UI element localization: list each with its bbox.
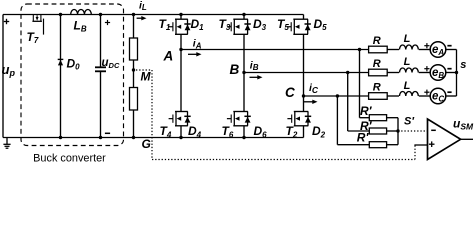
label s [460,59,466,71]
wire divider upper [133,15,135,39]
svg-text:B: B [230,62,240,77]
current iL arrow [137,16,147,20]
label L phase A [404,33,411,45]
resistor R phase A [369,46,388,53]
diode D0 [58,15,64,138]
label M [141,70,152,84]
svg-text:A: A [163,49,174,64]
wire L to source phase C [419,95,431,97]
wire divider middle [133,60,135,88]
label D2 [312,124,326,139]
label T3 [219,17,231,32]
buck converter dashed boundary box [21,4,124,146]
wire S' rail [397,118,399,145]
label B [230,62,240,77]
label R phase B [373,58,381,70]
ground [3,138,10,149]
wire T3 to node B [243,34,245,72]
node junction D0 top [59,13,62,16]
label C [285,85,295,100]
wire divider lower [133,110,135,138]
node tap phase B [346,71,349,74]
label R' phase B [360,119,373,133]
plus sign eB [424,66,429,71]
wire op-amp output [461,138,473,140]
label D3 [253,17,267,32]
resistor divider upper [130,38,138,60]
label L phase C [404,80,411,92]
wire T4 to bottom bus [180,126,182,138]
label T4 [160,124,172,139]
node junction bottom bus T4 [179,136,182,139]
wire phase C [304,95,369,97]
wire node to T6 cell [243,73,245,112]
label R phase C [373,82,381,94]
inductor L phase C [400,92,419,97]
label T7 [27,30,39,45]
wire top bus [3,14,304,16]
transistor T5 with diode D5 [287,19,311,35]
wire T1 to node A [180,34,182,49]
current iC arrow [304,100,318,104]
wire R to L phase B [387,72,399,74]
label LB [74,19,87,34]
label G [142,137,151,151]
svg-text:L: L [404,56,411,68]
node junction divider top [132,13,135,16]
current iL label [139,0,147,12]
transistor T7 (buck switch) [32,15,43,35]
svg-text:L: L [404,33,411,45]
svg-text:L: L [404,80,411,92]
resistor R' phase A [369,115,386,121]
inductor L phase B [400,68,419,73]
svg-text:S′: S′ [404,116,415,128]
minus sign eB [447,68,451,70]
wire leg from top bus to T5 cell [303,15,305,20]
current iB label [250,59,259,72]
label R' phase C [357,131,370,145]
label L phase B [404,56,411,68]
transistor T6 with diode D6 [227,111,251,126]
EMF source eA [430,42,446,58]
wire neutral rail s [456,50,458,97]
wire R' C to S' rail [387,144,398,146]
wire tap A down [360,50,370,118]
node tap phase A [358,48,361,51]
wire source to rail phase C [446,95,456,97]
svg-text:R′: R′ [360,104,373,118]
wire bottom bus [3,137,304,139]
plus sign eC [424,90,429,95]
wire T2 to bottom bus [303,126,305,138]
wire L to source phase A [419,49,431,51]
node junction uDC bottom [99,136,102,139]
voltage source u_p label [2,62,16,78]
wire left rail u_p [2,15,4,138]
transistor T1 with diode D1 [169,19,191,35]
inductor LB [71,9,92,14]
resistor R phase B [369,69,388,76]
wire R' A to S' rail [387,117,398,119]
node tap phase C [336,94,339,97]
node junction top bus leg T1 [179,13,182,16]
minus sign eA [447,45,451,47]
plus sign of u_p source [4,19,9,24]
label Buck converter [33,152,106,164]
transistor T3 with diode D3 [227,19,251,35]
svg-text:M: M [141,70,152,84]
corner top bus to T5 [0,0,1,1]
wire R to L phase C [387,95,399,97]
plus sign uDC [105,20,110,25]
svg-text:R: R [373,58,381,70]
wire phase B [244,72,369,74]
dotted wire up to op-amp plus [414,145,416,160]
svg-text:iC: iC [309,82,319,95]
node S' [396,129,399,132]
label D0 [67,57,81,72]
label A [163,49,174,64]
label D5 [314,17,328,32]
label D4 [188,124,202,139]
capacitor uDC [95,15,106,138]
node A [179,48,182,51]
svg-text:s: s [460,59,466,71]
node s [455,71,458,74]
wire to op-amp plus input [414,144,427,146]
plus sign eA [424,43,429,48]
EMF source eC [430,88,446,104]
wire tap C down [337,96,369,145]
wire leg from top bus to T1 cell [180,15,182,20]
label T1 [159,17,171,32]
svg-text:R′: R′ [357,131,370,145]
resistor divider lower [130,88,138,111]
svg-text:C: C [285,85,295,100]
transistor T2 with diode D2 [287,111,311,126]
node C [302,94,305,97]
wire source to rail phase A [446,49,456,51]
resistor R' phase B [369,128,386,134]
wire node to T4 cell [180,50,182,112]
label uSM [453,117,474,132]
label T2 [286,124,298,139]
label R phase A [373,35,381,47]
svg-text:R: R [373,35,381,47]
label T5 [277,17,289,32]
node junction D0 bottom [59,136,62,139]
wire L to source phase B [419,72,431,74]
wire tap B down [348,73,370,132]
node junction uDC top [99,13,102,16]
wire R' B to S' rail [387,130,398,132]
svg-text:Buck converter: Buck converter [33,152,106,163]
wire source to rail phase B [446,72,456,74]
wire leg from top bus to T3 cell [243,15,245,20]
node G junction [132,136,135,139]
label D6 [254,124,268,139]
current iA label [193,38,202,51]
wire T6 to bottom bus [243,126,245,138]
EMF source eB [430,65,446,81]
dotted wire M to corner [136,69,152,71]
label T6 [222,124,234,139]
op-amp U1 [428,119,461,160]
current iA arrow [188,52,202,56]
dotted wire bottom run [152,159,415,161]
label R' phase A [360,104,373,118]
transistor T4 with diode D4 [169,111,191,126]
svg-text:R: R [373,82,381,94]
node junction bottom bus T6 [242,136,245,139]
svg-text:G: G [142,137,151,151]
node junction top bus leg T3 [242,13,245,16]
minus sign eC [447,91,451,93]
current iB arrow [250,75,263,79]
node M [132,68,135,71]
wire node to T2 cell [303,96,305,112]
dotted wire S' to op-amp minus [398,130,428,132]
label D1 [191,17,205,32]
label uDC [102,57,120,70]
wire T5 to node C [303,34,305,96]
resistor R' phase C [369,142,386,148]
resistor R phase C [369,93,388,100]
node B [242,71,245,74]
wire phase A [181,49,369,51]
label S' [404,116,415,128]
dotted wire down from M [151,70,153,160]
wire R to L phase A [387,49,399,51]
current iC label [309,82,319,95]
minus sign uDC [105,132,110,134]
inductor L phase A [400,45,419,50]
